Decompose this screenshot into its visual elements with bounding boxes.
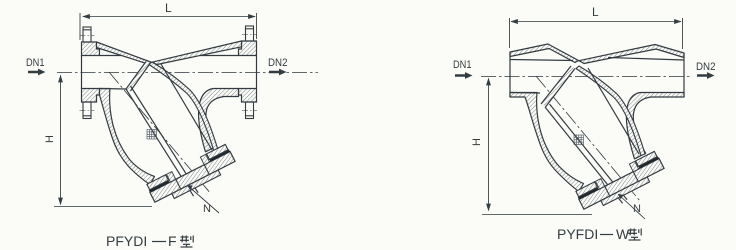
svg-text:L: L: [165, 1, 172, 15]
screen mesh square right: [574, 135, 584, 145]
tube wall strips right: [595, 179, 604, 189]
bore top line left: [100, 55, 122, 57]
end face right: [683, 53, 685, 97]
bolt top left flange: [80, 27, 95, 42]
seat hole line left right-diagram: [541, 66, 571, 104]
centerline branch axis: [109, 72, 211, 194]
bottom wall band right weld: [626, 93, 684, 159]
seat hole line left: [126, 62, 146, 90]
svg-text:L: L: [592, 5, 599, 19]
seat hole band: [126, 62, 150, 92]
gasket bars: [149, 180, 170, 192]
bottom wall band left weld: [510, 93, 584, 192]
bolt top right flange: [242, 26, 257, 41]
gasket bars right: [578, 187, 599, 199]
centerline pipe axis: [57, 72, 318, 74]
seat and bore-right wall band: [149, 62, 218, 152]
svg-text:H: H: [471, 138, 483, 146]
pass-through walls right: [605, 186, 610, 196]
dim H right: [482, 79, 592, 215]
seat hole line right right-diagram: [546, 69, 576, 108]
screen cartridge line B2: [131, 86, 199, 193]
centerline branch axis right: [536, 76, 640, 201]
svg-text:N: N: [633, 203, 641, 215]
cartridge right edge right-diagram: [588, 68, 639, 154]
top wall band left: [97, 42, 153, 64]
cover assembly right: [575, 151, 667, 214]
screen cartridge line B2 right: [550, 104, 628, 200]
arrow DN1 right: [455, 72, 473, 79]
arrow DN1: [28, 69, 46, 76]
bore top line right weld: [608, 58, 684, 61]
top wall band left weld: [510, 44, 579, 63]
dim L dimension line right: [510, 18, 683, 49]
pass-through walls: [176, 179, 181, 189]
screen cartridge line B1 right: [545, 107, 623, 203]
CJK glyph left: [180, 236, 193, 248]
spigot cap right: [601, 177, 650, 206]
svg-text:DN1: DN1: [26, 57, 45, 69]
bolt bottom right flange: [242, 102, 257, 119]
bottom wall band left with bell: [100, 89, 155, 185]
tube wall strips: [166, 172, 175, 182]
cover assembly: [146, 144, 238, 207]
svg-text:N: N: [203, 203, 211, 215]
arrow DN2: [269, 69, 287, 76]
svg-text:W: W: [616, 226, 630, 242]
svg-text:PFYDI: PFYDI: [106, 233, 147, 249]
bore top line right: [200, 55, 239, 57]
label N right with leader: [618, 194, 645, 219]
svg-text:DN2: DN2: [696, 61, 716, 73]
bottom wall band right with fillet: [199, 89, 239, 152]
seat and bore-right wall band right diagram: [576, 66, 645, 156]
seat hole line right: [131, 64, 151, 92]
cover slab: [150, 152, 235, 203]
seat hole band right-diagram: [541, 66, 575, 107]
bosses right: [576, 182, 597, 197]
bosses: [147, 175, 168, 190]
bore bottom line left-extend: [100, 88, 127, 91]
CJK glyph right: [628, 229, 641, 241]
bolt bottom left flange: [80, 102, 95, 119]
spigot cap: [172, 170, 221, 199]
top wall band right: [152, 41, 242, 65]
top wall band right weld: [579, 45, 684, 64]
arrow DN2 right: [697, 72, 715, 79]
svg-text:H: H: [44, 135, 56, 143]
flange left: [82, 42, 100, 102]
centerline pipe axis right: [481, 76, 692, 78]
svg-text:DN1: DN1: [453, 59, 472, 71]
dim L dimension line: [80, 13, 257, 40]
cartridge right edge: [161, 64, 212, 150]
svg-text:DN2: DN2: [268, 57, 288, 69]
bore bottom line right-diagram extend: [510, 92, 540, 95]
dim H dimension line: [54, 76, 152, 207]
screen mesh square: [147, 130, 157, 140]
svg-text:F: F: [168, 233, 177, 249]
flange right: [239, 41, 257, 102]
screen cartridge line B1: [126, 89, 194, 196]
label N with leader: [187, 185, 219, 215]
cover slab right: [579, 159, 664, 210]
svg-text:PYFDI: PYFDI: [557, 226, 598, 242]
bore top line left weld: [510, 60, 573, 61]
end face left: [509, 52, 511, 97]
